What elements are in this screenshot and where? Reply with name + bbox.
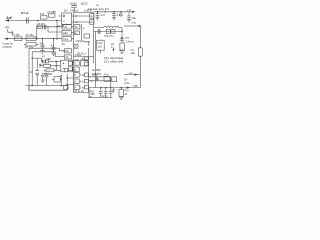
pin box U3a <box>68 62 72 66</box>
pin box 6 <box>74 61 79 66</box>
capacitor C13 <box>120 39 124 41</box>
svg-text:DY: DY <box>126 36 130 40</box>
svg-text:4u7: 4u7 <box>101 13 106 17</box>
svg-text:DY-m: DY-m <box>21 11 29 15</box>
node F <box>55 65 57 67</box>
wire R8 row <box>40 64 43 68</box>
selector box S3 <box>62 37 72 41</box>
svg-text:2,2: 2,2 <box>117 13 121 17</box>
resistor R5 <box>26 37 36 41</box>
pin box 14 <box>84 79 88 83</box>
capacitor C18 half-supply <box>71 4 77 13</box>
wire U1 out lower <box>72 21 90 23</box>
svg-text:42 4H: 42 4H <box>58 25 65 28</box>
wire IC right out1 <box>89 76 111 78</box>
resistor R14 <box>104 76 110 81</box>
svg-text:2,2u: 2,2u <box>124 81 130 85</box>
+U annotation arrow <box>124 25 140 27</box>
op-amp U3 <box>61 60 73 72</box>
resistor R1 <box>41 16 48 19</box>
svg-text:Imote Ax: Imote Ax <box>3 42 14 46</box>
node C <box>56 26 58 28</box>
wire branch A <box>36 26 62 28</box>
wire branch B <box>5 38 63 40</box>
node I <box>120 87 122 89</box>
svg-text:(2) offen(4): (2) offen(4) <box>104 60 124 64</box>
node R4 <box>120 11 122 13</box>
svg-text:uE/1C: uE/1C <box>81 1 88 5</box>
pin box 7 <box>74 67 79 72</box>
pin box 3 <box>74 24 80 29</box>
switch box S5 <box>64 55 71 59</box>
wire feedback L2 <box>32 52 64 57</box>
svg-text:47k: 47k <box>40 12 45 16</box>
pin box 4 <box>74 31 79 35</box>
svg-text:47u: 47u <box>48 72 53 76</box>
svg-text:47 20x: 47 20x <box>25 46 34 50</box>
svg-text:AT 35x: AT 35x <box>26 33 35 37</box>
arrowhead +UB <box>132 11 135 13</box>
arrowhead branch B <box>4 38 8 40</box>
pin box 5 <box>74 44 78 48</box>
trimmer elbow <box>8 29 13 34</box>
resistor R13 <box>120 43 124 50</box>
resistor R6 <box>26 43 36 46</box>
capacitor C19 box <box>112 77 117 82</box>
capacitor C6 <box>41 73 45 79</box>
resistor R10 <box>54 77 60 82</box>
svg-text:+Pu: +Pu <box>5 25 10 29</box>
ground C11 <box>127 20 131 22</box>
ground C3 <box>40 51 44 53</box>
node R2 <box>105 11 107 13</box>
pin box 9 <box>74 79 79 84</box>
node A <box>37 20 39 22</box>
pin box 1 <box>90 14 94 19</box>
IC internal divider vertical <box>81 24 83 40</box>
wire R7 out <box>49 61 61 63</box>
svg-text:DY: DY <box>124 77 128 81</box>
node R3 <box>113 11 115 13</box>
wire IC right out2 <box>89 80 111 82</box>
svg-text:Ar 35x: Ar 35x <box>12 33 20 37</box>
ground C6 <box>41 80 45 82</box>
capacitor C9 <box>112 12 116 18</box>
svg-text:2): 2) <box>74 45 76 48</box>
capacitor C1 <box>26 18 28 24</box>
pin box 12 <box>84 62 88 66</box>
resistor R2 <box>49 14 56 17</box>
wire S1 to IC <box>72 27 74 39</box>
svg-text:AT 35x: AT 35x <box>37 22 46 26</box>
svg-text:470 17u: 470 17u <box>104 34 114 38</box>
node E <box>63 50 64 51</box>
arrowhead feedback <box>42 61 44 63</box>
node H <box>60 85 62 87</box>
svg-text:680: 680 <box>46 57 51 61</box>
capacitor C12 <box>98 29 100 34</box>
arrowhead -UB <box>127 87 130 89</box>
bus bottom right lower <box>88 97 112 99</box>
switch box S4 <box>64 49 71 53</box>
right supply vertical <box>139 26 141 88</box>
svg-text:LSV: LSV <box>97 41 102 45</box>
svg-text:7A: 7A <box>65 55 68 59</box>
svg-text:4u7: 4u7 <box>102 95 107 98</box>
resistor R4 <box>15 37 23 41</box>
capacitor C10 <box>119 12 123 17</box>
capacitor C14 <box>95 77 98 81</box>
svg-text:+Uy: +Uy <box>131 20 137 24</box>
bus bottom-left <box>26 85 68 87</box>
cable arcs <box>94 26 122 28</box>
bus right vertical <box>95 31 97 87</box>
internal amp A3 <box>81 61 89 66</box>
svg-text:7.0v: 7.0v <box>80 73 86 77</box>
wire feedback L1 <box>29 48 64 51</box>
svg-text:+15V: +15V <box>89 92 95 96</box>
wire V1 <box>28 48 30 90</box>
svg-text:12Hx: 12Hx <box>75 53 82 57</box>
ground C8 <box>95 18 99 20</box>
svg-text:47u: 47u <box>40 41 45 45</box>
meter M1 <box>138 48 142 56</box>
capacitor C17 <box>109 88 113 98</box>
svg-text:1H: 1H <box>64 9 68 13</box>
svg-text:DA/2u: DA/2u <box>71 9 79 13</box>
pin box 8 <box>74 73 79 78</box>
box B1 <box>97 40 105 50</box>
ground R15 <box>119 96 124 99</box>
svg-text:10n: 10n <box>132 16 137 20</box>
capacitor C3 <box>41 39 45 51</box>
svg-text:12V: 12V <box>97 45 102 49</box>
svg-text:4uF: 4uF <box>131 51 136 55</box>
-U tap <box>124 74 140 76</box>
svg-text:+U: +U <box>127 8 131 12</box>
resistor R7b <box>46 60 49 63</box>
bus lower-left <box>29 86 67 91</box>
wire U3 out <box>73 63 74 70</box>
ground chain <box>119 50 125 53</box>
wire U1 out upper <box>72 15 90 17</box>
op-amp U1 <box>62 13 72 24</box>
svg-text:-Ux: -Ux <box>129 71 134 75</box>
svg-text:2,4mm: 2,4mm <box>126 40 134 44</box>
wire V2 <box>31 52 33 86</box>
node R1 <box>97 11 99 13</box>
node D <box>36 38 38 40</box>
capacitor C8 <box>96 12 100 18</box>
amp symbol internal <box>84 34 90 38</box>
pin box 15 <box>84 85 88 89</box>
pin box 10 <box>74 85 79 90</box>
resistor R15 <box>119 89 124 96</box>
svg-text:04 1L 8x: 04 1L 8x <box>74 90 84 93</box>
svg-text:2.6v: 2.6v <box>80 86 86 90</box>
capacitor C4 <box>52 39 56 53</box>
svg-text:4.1v: 4.1v <box>80 80 86 84</box>
pin box U3c <box>64 68 67 71</box>
selector box S2 <box>62 31 72 35</box>
resistor R12 <box>111 30 115 34</box>
capacitor C11 <box>127 12 131 20</box>
pin box 11 <box>84 57 88 60</box>
pin box 2 <box>90 20 94 25</box>
resistor R8 <box>43 64 50 67</box>
capacitor C2 <box>44 25 46 30</box>
resistor R3 <box>37 25 43 28</box>
selector box S1 <box>62 25 72 29</box>
wire to IC lower pins <box>67 74 74 90</box>
winding internal <box>76 41 89 42</box>
svg-text:1R: 1R <box>65 49 68 53</box>
resistor R11 <box>106 30 110 34</box>
svg-text:A02: A02 <box>63 31 68 35</box>
wire input top-left <box>6 20 62 22</box>
+UB rail <box>94 11 134 13</box>
svg-text:(O14,8): (O14,8) <box>3 45 12 49</box>
wire E-F <box>55 62 57 71</box>
wire branch A2 <box>48 27 62 32</box>
svg-text:47u: 47u <box>124 89 129 93</box>
svg-text:Auf: Auf <box>6 16 12 20</box>
svg-text:47n: 47n <box>104 73 109 77</box>
svg-text:+U/2v: +U/2v <box>70 1 78 5</box>
pin box U3b <box>68 67 72 71</box>
capacitor C16 <box>104 88 108 98</box>
IC divider <box>74 57 94 60</box>
svg-text:47-388: 47-388 <box>47 10 56 14</box>
component K1 <box>64 85 68 89</box>
capacitor C7 <box>45 73 49 85</box>
wire vertical R3 down <box>36 27 38 39</box>
svg-text:LF 356: LF 356 <box>92 68 101 72</box>
svg-text:C1A: C1A <box>63 37 68 41</box>
wire feedback L3 <box>32 58 41 61</box>
capacitor C15 <box>99 88 103 98</box>
resistor R7a <box>42 60 45 63</box>
svg-text:+): +) <box>75 15 77 18</box>
wire node B down <box>56 21 58 39</box>
svg-text:2 tra: 2 tra <box>92 73 98 77</box>
svg-text:-UB: -UB <box>133 84 138 88</box>
IC U2 outline <box>74 13 94 93</box>
node B <box>56 20 58 22</box>
wire U1 in + <box>59 15 62 17</box>
resistor R9 <box>46 69 54 72</box>
capacitor C5 <box>35 58 39 85</box>
bus bottom right <box>89 87 140 89</box>
output wire mid <box>94 30 122 32</box>
node G <box>31 85 33 87</box>
pin box 13 <box>84 73 88 77</box>
svg-text:1xE/1C: 1xE/1C <box>84 9 93 13</box>
arrow down annotation <box>113 48 115 51</box>
input arrowhead <box>5 19 9 21</box>
svg-text:TA: TA <box>75 25 78 29</box>
ground bus <box>112 88 116 93</box>
wire right vertical chain <box>121 28 123 44</box>
ground C9 <box>112 18 116 20</box>
ground C4 <box>51 53 55 55</box>
